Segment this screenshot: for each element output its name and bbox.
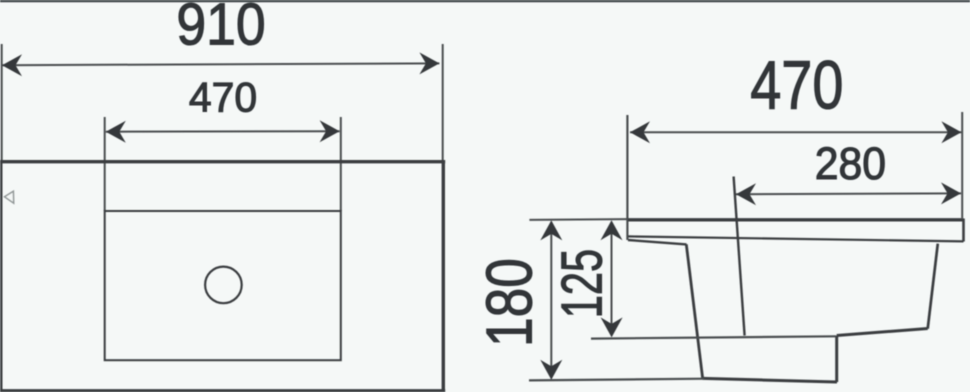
svg-text:180: 180	[473, 258, 546, 347]
svg-text:470: 470	[189, 73, 257, 121]
svg-text:910: 910	[176, 0, 265, 57]
svg-text:470: 470	[750, 47, 843, 124]
svg-text:125: 125	[549, 249, 614, 318]
svg-text:280: 280	[815, 139, 886, 189]
